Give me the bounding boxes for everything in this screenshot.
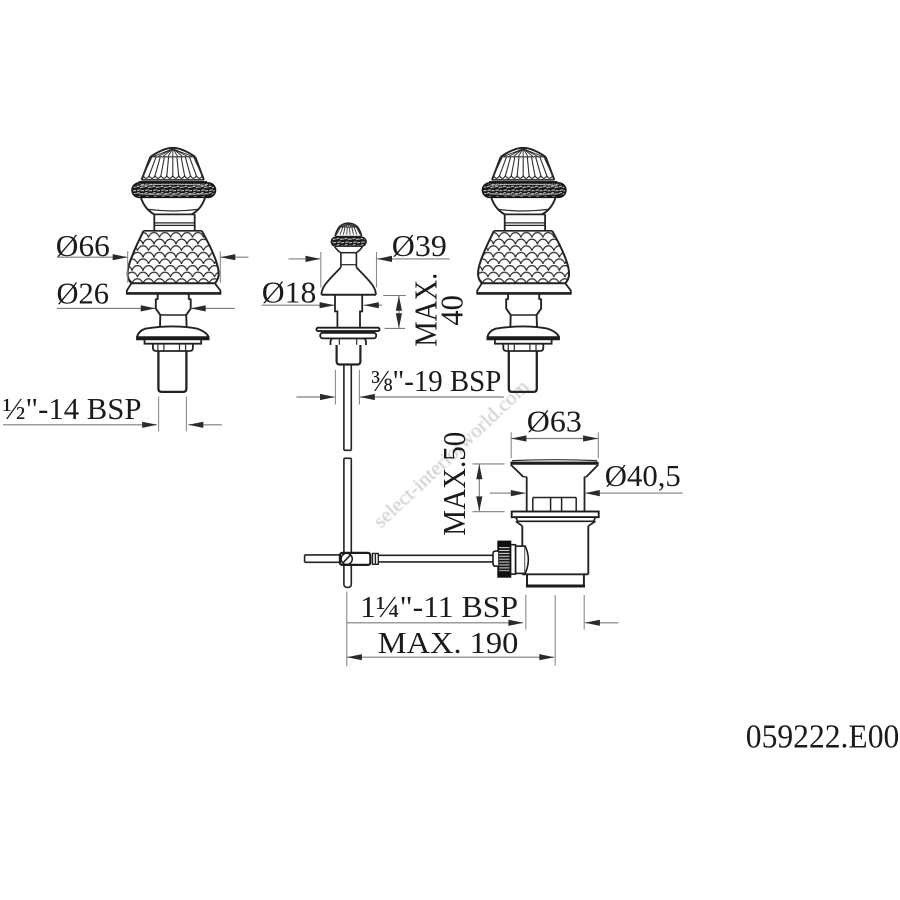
extension line tail right [583, 595, 585, 630]
svg-text:MAX. 190: MAX. 190 [378, 625, 519, 660]
popup knob peak cap [339, 223, 357, 227]
extension line drain center [554, 595, 556, 666]
dim MAX.40 lines [383, 295, 406, 297]
drain body [521, 526, 523, 574]
svg-text:MAX.50: MAX.50 [436, 432, 472, 536]
drain flange [512, 512, 599, 518]
popup knob bell [321, 267, 341, 294]
svg-text:Ø63: Ø63 [527, 404, 582, 439]
dim 1 1/4 BSP lines [347, 622, 523, 624]
dim Ø63 lines [511, 438, 598, 440]
svg-text:Ø26: Ø26 [57, 275, 110, 310]
horizontal rod to drain [378, 555, 494, 562]
dim Ø66 lines [57, 256, 127, 258]
svg-text:⅜"-19 BSP: ⅜"-19 BSP [371, 363, 502, 398]
drain plug [533, 498, 576, 512]
drain funnel cone [511, 465, 599, 477]
svg-text:½"-14 BSP: ½"-14 BSP [3, 391, 142, 426]
popup escutcheon plate 1 [317, 328, 380, 331]
extension line rod center [346, 592, 348, 667]
popup lift rod lower [344, 458, 351, 553]
popup knob cushion [335, 247, 341, 253]
svg-text:Ø39: Ø39 [392, 228, 447, 263]
popup knob stem [335, 295, 337, 328]
clamp block [340, 553, 370, 565]
dim 1/2 BSP lines [3, 424, 157, 426]
svg-text:1¼"-11 BSP: 1¼"-11 BSP [360, 589, 518, 624]
dim Ø26 lines [57, 307, 155, 309]
rod collar [373, 553, 379, 564]
dim Ø39 lines [289, 258, 321, 260]
svg-text:Ø40,5: Ø40,5 [605, 458, 681, 493]
svg-text:Ø18: Ø18 [262, 275, 317, 310]
popup locknut [331, 338, 367, 345]
drain funnel top [512, 459, 597, 462]
left handle H1 [125, 148, 222, 392]
svg-text:059222.E00: 059222.E00 [746, 719, 900, 756]
popup knob dome cone [335, 227, 361, 236]
clamp screw [341, 553, 352, 564]
popup knob flutes [337, 227, 361, 234]
dim 3/8 BSP lines [297, 396, 335, 398]
popup threaded bush [337, 345, 361, 365]
dim Ø18 lines [262, 304, 335, 306]
drain nut end cap [493, 551, 498, 566]
horizontal rod left stub [305, 555, 340, 562]
dim MAX.50 lines [473, 463, 505, 465]
dim MAX.190 lines [347, 656, 554, 658]
popup rod below clamp [344, 565, 351, 588]
drain upper cylinder [526, 477, 528, 512]
drain shoulder [516, 521, 596, 526]
extension line tail left [525, 595, 527, 630]
right handle H2 [475, 148, 572, 392]
drain tailpiece [527, 574, 584, 585]
svg-text:Ø66: Ø66 [56, 228, 110, 263]
popup knob neck [340, 253, 342, 268]
popup knob knurled band [331, 237, 366, 246]
popup lift rod upper [344, 365, 351, 451]
popup escutcheon plate 2 [320, 333, 376, 339]
drain rod coupling nut [516, 546, 526, 573]
dim Ø40,5 lines [490, 492, 525, 494]
svg-text:40: 40 [434, 295, 470, 326]
